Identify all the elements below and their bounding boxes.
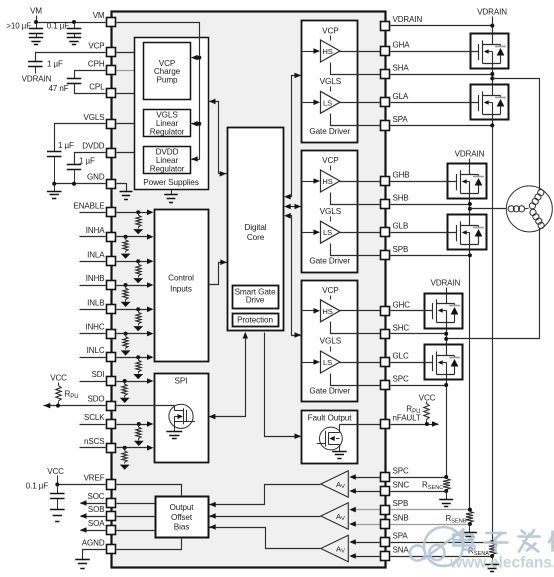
arrow SNA into amplifier [349,553,356,559]
wire VM bus to VM pin [37,22,106,24]
watermark text elecfans [454,530,554,552]
wire DVDD pin internal [117,152,144,154]
arrow SPI transistor body [178,414,184,419]
block SPI [155,374,209,463]
wire LS input B [302,232,315,234]
wire HS input A [302,51,315,53]
svg-text:nFAULT: nFAULT [393,414,421,423]
pin nSCS [107,444,116,453]
resistor pull-down INLA [136,259,140,263]
svg-text:VREF: VREF [84,474,105,483]
wire CPH pin internal [117,70,144,72]
arrow ENABLE into Control Inputs [147,210,154,216]
op-amp current sense amplifier A_V (phase C) [321,471,349,497]
wire R_SENC to ground [446,492,448,500]
wire HS output to GH pin C [340,310,381,312]
svg-text:Bias: Bias [174,523,190,532]
svg-text:HS: HS [322,307,332,316]
wire R_SENB to ground [469,525,471,533]
wire SDO internal to SPI transistor gate [117,405,175,407]
arrow SCLK into SPI [147,421,154,427]
wire SHB pin to bus [391,204,470,206]
node junction VM cap1 [34,20,38,24]
wire SNA to bus [391,556,493,558]
wire Power Supplies to Digital Core bus [210,102,227,174]
wire phase A to motor [493,79,540,191]
arrow MOSFET body contact [462,179,467,184]
pin GHB [381,177,390,186]
wire LS output to GL pin C [340,362,381,364]
wire LS input C [302,362,315,364]
wire VDRAIN pin to bus [391,25,493,27]
pin GHA [381,47,390,56]
capacitor >10 uF [36,23,38,29]
svg-text:CPL: CPL [89,82,105,91]
pin VM [107,18,116,27]
wire GLC pin to FET gate [391,362,425,364]
wire SHC pin to bus [391,333,447,335]
block Gate Driver B [302,151,358,273]
node junction SPC [444,383,448,387]
svg-text:VCP: VCP [88,41,104,50]
wire SPA sense input [356,542,381,544]
wire INLC input lead [80,357,106,359]
capacitor 1 uF (DVDD) [67,165,82,170]
node junction SNA sense [490,554,494,558]
arrow into Digital Core (GD C bus) [284,213,291,219]
svg-text:SNA: SNA [393,546,410,555]
pin SPB2 [381,506,390,515]
block Output Offset Bias [156,497,209,538]
wire HS output to GH pin B [340,181,381,183]
svg-text:Protection: Protection [237,315,273,324]
pin CPH [107,66,116,75]
wire nSCS internal to SPI [117,447,148,449]
svg-text:VGLS: VGLS [84,113,105,122]
svg-text:VDRAIN: VDRAIN [431,279,461,288]
resistor pull-down nSCS [123,446,127,450]
arrow VM feed into DVDD regulator [192,159,200,161]
capacitor 0.1 uF (VREF) [57,485,59,494]
wire SOC from Output Offset Bias [117,503,156,505]
node junction SHB [468,202,472,206]
ground (VREF cap) [50,510,65,522]
wire Digital Core to Gate Driver C [286,216,301,336]
pin AGND [107,545,116,554]
wire Digital Core to Fault Output [265,333,301,437]
node junction VGLS-cap GND [52,182,56,186]
arrow into SPI (from Digital Core) [209,414,216,420]
arrow INLA into Control Inputs [147,259,154,265]
svg-text:HS: HS [322,177,332,186]
svg-text:VM: VM [30,7,42,16]
svg-text:Regulator: Regulator [150,128,185,137]
node junction DVDD-cap GND [72,182,76,186]
ground (R_SENB) [463,533,477,540]
wire SNA sense input [356,556,381,558]
arrow into Digital Core (SPI bus) [243,332,249,339]
amplifier HS buffer B [321,170,340,192]
svg-text:Gate Driver: Gate Driver [309,387,350,396]
arrow SOC output direction [80,500,87,506]
svg-text:INLA: INLA [87,250,105,259]
svg-text:nSCS: nSCS [84,437,105,446]
wire VDRAIN bus C [446,288,448,478]
diode MOSFET body diode [495,97,506,99]
wire Digital Core to SPI [210,333,246,417]
op-amp current sense amplifier A_V (phase B) [321,503,349,529]
svg-text:VGLS: VGLS [320,77,342,86]
wire SP sense A [331,114,381,126]
ground (R_SENC) [439,500,453,507]
wire GND pin internal [117,184,127,192]
arrow MOSFET body contact [484,100,489,105]
wire SOA output lead [81,530,106,532]
wire VGLS pin to cap [55,124,106,152]
node junction VDRAIN bus [490,24,494,28]
wire ENABLE internal to Control Inputs [117,212,148,214]
resistor R_SENC [443,479,450,490]
wire ENABLE input lead [80,212,106,214]
wire VREF internal to Output Offset Bias [117,485,182,497]
pin SOB [107,512,116,521]
ground (R_SENA) [485,565,499,572]
arrow VM feed into VCP charge pump [192,57,200,59]
wire LS output to GL pin A [340,102,381,104]
svg-text:AGND: AGND [82,538,105,547]
wire SPC2 to bus [391,477,447,479]
wire Control Inputs to Digital Core [209,263,227,285]
svg-text:SNB: SNB [393,514,409,523]
arrow into Gate Driver B [295,204,302,210]
block Power Supplies [135,38,209,190]
svg-text:SCLK: SCLK [84,413,105,422]
pin GLA [381,98,390,107]
ground (external GND) [47,192,62,199]
wire VM internal feed [117,23,200,160]
svg-text:VCP: VCP [322,286,339,295]
node junction SHC [444,332,448,336]
pin SPB [381,251,390,260]
svg-text:INLB: INLB [87,298,104,307]
svg-text:Control: Control [168,274,194,283]
svg-text:DVDD: DVDD [82,142,105,151]
svg-text:VDRAIN: VDRAIN [393,15,423,24]
wire phase B to motor [470,208,507,210]
wire CPL pin internal [117,93,144,95]
wire VCP pin to cap [36,53,106,62]
wire VCP stub to HS buffer B [330,166,332,171]
wire INHA internal to Control Inputs [117,236,148,238]
wire AGND pin to ground [83,550,106,560]
svg-text:SHA: SHA [393,64,410,73]
ground (SPI transistor) [166,432,182,439]
pin CPL [107,89,116,98]
node junction VREF cap [55,483,59,487]
svg-text:VGLS: VGLS [320,207,342,216]
svg-text:Offset: Offset [171,513,193,522]
svg-text:GHB: GHB [393,171,410,180]
wire VREF pin lead [58,484,106,486]
svg-text:www.elecfans.com: www.elecfans.com [449,555,554,572]
arrow into Gate Driver A [295,73,302,79]
arrow SOA output direction [80,527,87,533]
wire SCLK input lead [80,424,106,426]
wire SH sense A [331,63,381,75]
svg-text:SPA: SPA [393,532,409,541]
pin SPA2 [381,538,390,547]
svg-text:0.1 µF: 0.1 µF [26,482,48,491]
resistor pull-down SCLK [137,422,141,426]
wire DVDD pin to cap [75,153,106,165]
wire HS output to GH pin A [340,51,381,53]
pin INLA [107,257,116,266]
node junction SPB sense [468,508,472,512]
wire VCC stub to RPU (nFAULT) [426,402,428,404]
block Digital Core [228,128,284,331]
wire CPH pin to cap [75,71,106,79]
arrow into Gate Driver C [295,332,302,338]
wire SP sense B [331,244,381,256]
wire SNB to bus [391,524,470,526]
transistor external power MOSFET [425,294,463,329]
arrow nFAULT output direction [432,421,439,427]
wire SPA2 to bus [391,542,493,544]
arrow SNB into amplifier [349,521,356,527]
arrow SDO output direction [44,403,51,409]
wire Digital Core to Gate Driver A [286,76,301,197]
resistor pull-down INHA [124,235,128,239]
wire GHB pin to FET gate [391,181,448,183]
diode MOSFET body diode [495,46,506,48]
svg-text:SPB: SPB [393,499,409,508]
node junction SNB sense [468,522,472,526]
wire VCP stub to HS buffer C [330,296,332,300]
wire SDI input lead [80,381,106,383]
pin VDRAIN [381,22,390,31]
pin INHB [107,281,116,290]
wire HS input B [302,181,315,183]
node junction phase A branch [490,76,494,80]
wire VM label to bus [36,16,38,23]
svg-text:SPC: SPC [393,467,409,476]
svg-text:SNC: SNC [393,481,410,490]
svg-text:ENABLE: ENABLE [74,201,105,210]
transistor external power MOSFET [448,215,487,250]
svg-text:Gate Driver: Gate Driver [309,257,350,266]
pin SHB [381,200,390,209]
pin SDI [107,377,116,386]
arrow into Output Offset Bias (A) [209,524,216,530]
node junction SPA sense [490,540,494,544]
amplifier LS buffer B [321,221,340,243]
amplifier LS buffer C [321,351,340,373]
svg-text:0.1 µF: 0.1 µF [47,21,69,30]
diode MOSFET body diode [473,227,484,229]
resistor pull-down INHB [124,283,128,287]
svg-text:SHB: SHB [393,194,409,203]
arrow into Output Offset Bias (B) [209,513,216,519]
node junction SHA [490,72,494,76]
wire Digital Core to Gate Driver B [286,206,301,208]
pin SHC [381,330,390,339]
block Gate Driver A [302,21,358,143]
block Gate Driver C [302,281,358,402]
pin INHC [107,330,116,339]
ground (AGND) [75,560,90,569]
watermark elecfans logo [410,527,465,566]
block VCP Charge Pump [144,43,191,100]
motor three-phase (M) [506,186,552,232]
wire A_V B output to Output Offset Bias [210,516,321,518]
resistor pull-down INLC [136,355,140,359]
pin DVDD [107,149,116,158]
amplifier HS buffer A [321,40,340,62]
wire GHC pin to FET gate [391,310,425,312]
resistor pull-down SDI [123,379,127,383]
svg-text:INHB: INHB [86,274,105,283]
svg-text:GND: GND [87,173,105,182]
arrow SPC into amplifier [349,474,356,480]
wire INLB input lead [80,309,106,311]
arrow Fault transistor body [329,436,335,441]
wire SCLK internal to SPI [117,424,148,426]
svg-text:VDRAIN: VDRAIN [455,149,485,158]
wire SPB2 to bus [391,509,470,511]
wire VCC stub to VREF node [57,476,59,485]
svg-text:INLC: INLC [87,346,105,355]
resistor R_SENB [466,511,473,522]
wire LS input A [302,102,315,104]
wire SPA pin to bus [391,125,493,127]
svg-text:GHC: GHC [393,300,411,309]
node junction VM feed VCP [197,56,201,60]
wire SDI internal to SPI [117,381,148,383]
wire DVDD cap to gnd wire [74,170,76,184]
svg-text:SPB: SPB [393,245,409,254]
node junction SPC sense [444,475,448,479]
wire CPL pin to cap [75,84,106,94]
pin GLB [381,228,390,237]
ground (below Power Supplies) [171,190,173,195]
block DVDD Linear Regulator [144,147,191,174]
wire VGLS stub to LS buffer A [330,87,332,92]
pin SNC [381,487,390,496]
wire INLA input lead [80,261,106,263]
pin VREF [107,480,116,490]
svg-text:47 nF: 47 nF [49,84,69,93]
svg-text:SOB: SOB [88,505,105,514]
diode MOSFET body diode [449,305,460,307]
wire SNB sense input [356,524,381,526]
wire SNC sense input [356,491,381,493]
svg-text:VCC: VCC [419,393,436,402]
pin GHC [381,307,390,316]
wire gnd stub [54,184,56,192]
pin nFAULT [381,420,390,429]
svg-text:1 µF: 1 µF [58,141,74,150]
ground (Fault Output transistor) [332,452,347,459]
svg-text:Inputs: Inputs [170,285,192,294]
arrow into Power Supplies [209,99,216,105]
arrow MOSFET body contact [462,230,467,235]
IC body (gate driver chip outline) [112,12,386,568]
svg-text:SOA: SOA [88,519,105,528]
wire SPB pin to bus [391,255,470,257]
svg-text:SPI: SPI [175,377,188,386]
arrow into Output Offset Bias (C) [209,502,216,508]
svg-text:VGLS: VGLS [320,337,342,346]
pin INLC [107,353,116,362]
arrow INHC into Control Inputs [147,331,154,337]
svg-text:Digital: Digital [244,223,266,232]
wire nFAULT pin to arrow [391,424,439,426]
wire VDRAIN bus B [469,159,471,510]
wire SH sense C [331,322,381,334]
svg-text:SPC: SPC [393,375,409,384]
wire GLA pin to FET gate [391,102,471,104]
transistor external power MOSFET [471,34,509,69]
pin VGLS [107,120,116,129]
svg-text:LS: LS [323,98,332,107]
node junction phase B branch [468,207,472,211]
resistor R_SENA [489,544,496,555]
wire A_V A output to Output Offset Bias [210,528,321,549]
svg-text:GLB: GLB [393,222,409,231]
arrow SPB into amplifier [349,507,356,513]
svg-text:VM: VM [93,11,105,20]
wire A_V C output to Output Offset Bias [210,485,321,505]
wire LS output to GL pin B [340,232,381,234]
diode MOSFET body diode [473,176,484,178]
pin SOC [107,499,116,508]
wire VCP pin internal [117,52,144,54]
wire SDO pin to arrow [44,405,106,407]
svg-text:CPH: CPH [88,59,105,68]
node junction phase C branch [444,337,448,341]
arrow INHB into Control Inputs [147,282,154,288]
resistor pull-down INHC [124,332,128,336]
wire INLA internal to Control Inputs [117,261,148,263]
svg-text:VCP: VCP [322,26,339,35]
wire GLB pin to FET gate [391,232,448,234]
capacitor 1 uF (VCP-VDRAIN) [28,62,43,67]
ground for 0.1 uF cap [67,38,82,45]
wire SH sense B [331,193,381,205]
pin INLB [107,305,116,314]
wire INLC internal to Control Inputs [117,357,148,359]
wire R_SENA to ground [492,557,494,565]
pin SOA [107,526,116,535]
block VGLS Linear Regulator [144,110,191,137]
svg-text:SPA: SPA [393,115,409,124]
capacitor 1 uF (VGLS) [47,152,62,157]
arrow SPA into amplifier [349,539,356,545]
node junction RPU-SDO [56,404,60,408]
svg-text:Output: Output [170,503,195,512]
pin VCP [107,48,116,57]
transistor Fault Output open-drain [317,425,343,452]
svg-text:HS: HS [322,47,332,56]
svg-text:SDO: SDO [87,395,104,404]
svg-text:INHA: INHA [86,226,105,235]
arrow INLB into Control Inputs [147,307,154,313]
arrow SNC into amplifier [349,488,356,494]
resistor RPU (SDO) [56,386,61,401]
wire HS input C [302,310,315,312]
wire GND pin to caps [55,183,106,185]
svg-text:Gate Driver: Gate Driver [309,127,350,136]
